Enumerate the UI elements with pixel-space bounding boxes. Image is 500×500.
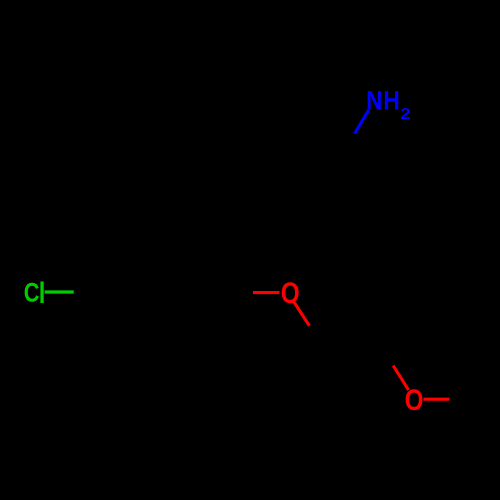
wire: bond CH2 to methoxy O (red half, diagonal) bbox=[393, 366, 408, 390]
atom label O (center ether) bbox=[281, 277, 300, 310]
atom label Cl : letter C bbox=[24, 278, 40, 308]
svg-text:C: C bbox=[24, 278, 40, 308]
svg-text:2: 2 bbox=[400, 104, 410, 122]
svg-text:N: N bbox=[366, 87, 382, 116]
wire: bond Cl to ring carbon (green half) bbox=[45, 290, 74, 293]
atom label O (methoxy) bbox=[405, 383, 424, 417]
wire: bond methoxy O to CH3 (red half, horizontal) bbox=[423, 398, 449, 401]
wire: bond amine N to chain carbon (blue half) bbox=[355, 110, 369, 133]
svg-text:O: O bbox=[405, 383, 424, 417]
wire: bond ring carbon to ether O (red half, horizontal) bbox=[253, 291, 280, 294]
atom label NH2 : subscript 2 bbox=[400, 104, 410, 122]
atom label NH2 : letter N bbox=[366, 87, 382, 116]
wire: bond ether O to CH2 (red half, diagonal) bbox=[294, 302, 310, 326]
atom label Cl : letter l bbox=[39, 277, 46, 310]
svg-text:l: l bbox=[39, 277, 46, 310]
svg-text:H: H bbox=[383, 87, 399, 116]
atom label NH2 : letter H bbox=[383, 87, 399, 116]
